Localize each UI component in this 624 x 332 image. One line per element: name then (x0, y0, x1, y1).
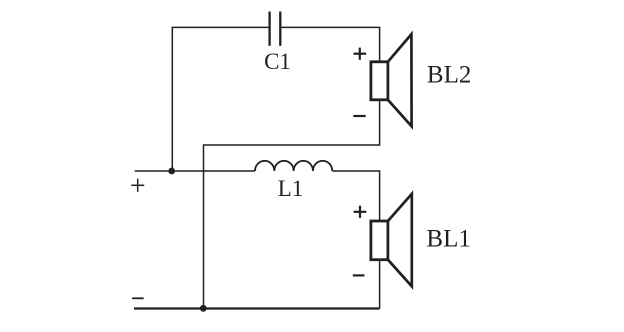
speaker BL1 driver (371, 221, 388, 260)
speaker BL2 driver (371, 62, 388, 100)
BL2 + polarity (354, 48, 367, 60)
wire: bottom rail (- rail) (134, 307, 380, 309)
inductor L1 (255, 161, 332, 171)
svg-text:BL2: BL2 (427, 61, 471, 88)
node: junction dot on + rail (168, 168, 175, 175)
node: junction dot on - rail (200, 305, 207, 312)
wire: from C1 right plate to top-right corner down to BL2 + terminal (281, 27, 379, 62)
wire: + rail right segment from L1 to BL1 + terminal (332, 171, 379, 221)
svg-text:L1: L1 (278, 176, 304, 201)
BL1 + polarity (354, 206, 367, 218)
BL1 - polarity (353, 274, 365, 276)
svg-text:BL1: BL1 (426, 226, 470, 253)
input + polarity (131, 179, 144, 192)
speaker BL2 cone (388, 34, 412, 126)
BL2 - polarity (353, 115, 365, 117)
wire: BL1 - terminal down to bottom rail (379, 260, 381, 309)
wire: top-left from C1 left plate to left vertical down to + rail (172, 27, 268, 171)
capacitor C1 (270, 12, 281, 46)
wire: BL2 - terminal return, down left and down to bottom rail (204, 100, 380, 309)
input - polarity (132, 297, 144, 299)
svg-text:C1: C1 (264, 49, 291, 74)
speaker BL1 cone (388, 194, 412, 286)
wire: + rail left segment from input + to L1 (135, 170, 255, 172)
